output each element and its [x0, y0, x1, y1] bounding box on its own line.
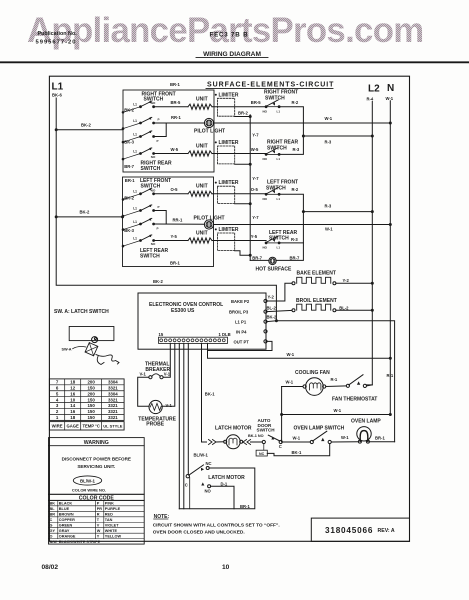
svg-text:150: 150	[87, 409, 95, 414]
svg-text:L1: L1	[277, 157, 281, 161]
svg-text:L1: L1	[133, 236, 137, 240]
wire OUT PT loop	[208, 341, 273, 350]
svg-text:C: C	[185, 482, 188, 487]
wire unit to limiter	[212, 240, 266, 242]
thermal limiter RR	[218, 146, 235, 164]
switch S-RR name	[141, 160, 173, 172]
svg-text:1: 1	[56, 415, 59, 420]
svg-text:NO: NO	[151, 188, 156, 192]
wire latch NO to box	[211, 486, 234, 508]
switch S-LR contact (pilot)	[123, 224, 141, 230]
svg-text:C: C	[50, 518, 53, 522]
logo AppliancePartsPros.com	[27, 11, 424, 50]
svg-text:R-3: R-3	[325, 204, 332, 209]
sensor temperature probe RT1	[138, 400, 176, 427]
svg-text:3304: 3304	[108, 380, 118, 385]
svg-text:R-3: R-3	[325, 139, 332, 144]
wire BK-1 NC to lamp switch	[267, 444, 329, 456]
wire N bus vertical W-1	[389, 101, 391, 415]
svg-text:UNIT: UNIT	[196, 184, 208, 190]
svg-text:BLACK/WHITE STRIPE: BLACK/WHITE STRIPE	[59, 540, 101, 544]
pin BROIL P3	[229, 309, 267, 314]
thermostat fan thermostat S5	[332, 375, 377, 403]
model number text	[210, 32, 249, 39]
svg-text:V-1: V-1	[164, 371, 171, 376]
svg-text:GREEN: GREEN	[59, 524, 73, 528]
svg-text:BK-2: BK-2	[153, 279, 163, 284]
svg-text:08/02: 08/02	[42, 564, 59, 571]
svg-text:NC: NC	[206, 461, 212, 466]
svg-text:NO: NO	[263, 246, 268, 250]
svg-text:NO: NO	[151, 101, 156, 105]
wire limiter tap Y-5	[235, 251, 251, 256]
wire BK-1 to latch motor	[202, 343, 216, 442]
svg-text:Y-5: Y-5	[251, 234, 258, 239]
svg-text:3321: 3321	[108, 409, 118, 414]
svg-text:Y-7: Y-7	[252, 176, 259, 181]
wire BK-2 to right front switch	[56, 123, 123, 130]
wire broil to L2 BL-2	[336, 306, 372, 311]
node N	[386, 83, 395, 101]
svg-text:DISCONNECT POWER BEFORE: DISCONNECT POWER BEFORE	[62, 456, 131, 461]
svg-text:GY: GY	[50, 529, 56, 533]
svg-text:UNIT: UNIT	[196, 230, 208, 236]
svg-text:200: 200	[87, 380, 95, 385]
wire limiter tap W-5	[235, 163, 251, 165]
node junction L1/BK-2	[55, 128, 58, 131]
svg-text:R: R	[97, 513, 100, 517]
wire L1 P1 BK-2 to lamp	[267, 321, 395, 442]
svg-text:BAKE P2: BAKE P2	[231, 299, 250, 304]
lamp pilot light right	[194, 118, 225, 134]
wire door sw C up to W-1	[281, 440, 283, 442]
thermal limiter RF	[218, 98, 235, 116]
svg-text:18: 18	[70, 415, 75, 420]
svg-text:W-1: W-1	[287, 352, 295, 357]
svg-text:Y-7: Y-7	[252, 215, 259, 220]
resistor UNIT RR	[188, 151, 212, 156]
svg-text:R-2: R-2	[292, 100, 299, 105]
node L1 junction dot	[275, 319, 278, 322]
svg-text:PILOT LIGHT: PILOT LIGHT	[194, 128, 225, 134]
svg-text:318045066: 318045066	[325, 526, 373, 535]
node bake/L2 junction	[371, 282, 374, 285]
svg-text:150: 150	[87, 385, 95, 390]
svg-text:SWITCH: SWITCH	[265, 96, 285, 102]
svg-text:3321: 3321	[108, 403, 118, 408]
svg-text:LATCH MOTOR: LATCH MOTOR	[208, 475, 245, 481]
wire fan drop to W-1 bus	[281, 387, 283, 443]
svg-text:R-4: R-4	[367, 96, 374, 101]
switch box left front/rear	[123, 177, 214, 267]
wire BR-5 unit feed	[154, 106, 188, 108]
svg-text:L1: L1	[133, 132, 137, 136]
svg-text:SERVICING UNIT.: SERVICING UNIT.	[77, 464, 115, 469]
svg-text:SWITCH: SWITCH	[257, 428, 276, 433]
svg-text:L1: L1	[133, 206, 137, 210]
svg-text:12: 12	[70, 385, 75, 390]
node pilot2/N junction	[389, 223, 392, 226]
svg-text:UL STYLE: UL STYLE	[103, 424, 123, 429]
svg-text:L1: L1	[133, 149, 137, 153]
svg-text:PROBE: PROBE	[146, 422, 164, 428]
switch S-LR contact (unit)	[123, 241, 141, 247]
svg-text:BROWN: BROWN	[59, 513, 74, 517]
svg-text:TEMP °C: TEMP °C	[82, 424, 99, 429]
svg-text:P: P	[158, 118, 160, 122]
svg-text:LIMITER: LIMITER	[219, 227, 239, 233]
svg-text:N: N	[387, 83, 394, 94]
svg-text:SW-A: SW-A	[62, 347, 72, 351]
svg-text:WIRE: WIRE	[52, 424, 63, 429]
svg-text:BR-1: BR-1	[240, 504, 250, 509]
svg-text:UNIT: UNIT	[196, 97, 208, 103]
node R-3/L2 junction	[371, 135, 374, 138]
svg-text:L1: L1	[277, 246, 281, 250]
motor cooling fan M1	[295, 370, 330, 395]
svg-text:R-1: R-1	[331, 377, 338, 382]
svg-text:WIRING DIAGRAM: WIRING DIAGRAM	[203, 51, 261, 58]
svg-text:Publication No.: Publication No.	[38, 31, 78, 37]
svg-text:L1: L1	[133, 220, 137, 224]
svg-text:BK-1: BK-1	[205, 392, 215, 397]
svg-text:Y-5: Y-5	[171, 234, 178, 239]
heater bake element	[292, 270, 336, 284]
wire limiter tap O-5	[235, 203, 251, 205]
wire V-1 to temp probe	[162, 343, 174, 406]
svg-text:P: P	[158, 205, 160, 209]
part number box	[311, 518, 409, 541]
wire W-5 unit feed	[154, 153, 188, 155]
svg-text:BR-7: BR-7	[252, 255, 262, 260]
svg-text:L1: L1	[133, 103, 137, 107]
svg-text:UNIT: UNIT	[196, 143, 208, 149]
svg-text:WHITE: WHITE	[105, 529, 118, 533]
node junction L1 lower	[55, 215, 58, 218]
svg-text:FEC3 7B B: FEC3 7B B	[210, 32, 249, 39]
svg-text:V-1: V-1	[166, 403, 173, 408]
svg-text:6: 6	[56, 385, 59, 390]
svg-text:BK-2: BK-2	[81, 123, 91, 128]
motor latch motor M2	[215, 425, 252, 448]
wire unit to limiter	[212, 106, 266, 108]
svg-text:W-1: W-1	[286, 380, 294, 385]
svg-text:W-1: W-1	[386, 96, 394, 101]
svg-text:10: 10	[70, 397, 75, 402]
svg-text:LATCH MOTOR: LATCH MOTOR	[215, 425, 252, 431]
svg-text:1 DLB: 1 DLB	[219, 332, 231, 337]
svg-text:3321: 3321	[108, 385, 118, 390]
wire L2 bus vertical R-4	[366, 102, 372, 385]
svg-text:150: 150	[87, 397, 95, 402]
svg-text:2: 2	[56, 409, 59, 414]
wire BL to latch area b	[183, 343, 185, 508]
switch S-RR contact (unit)	[123, 154, 141, 160]
pin L1 P1	[235, 319, 267, 324]
svg-text:BL: BL	[50, 507, 56, 511]
switch box right front/rear	[123, 90, 214, 172]
node Y-7 junctions	[249, 115, 252, 118]
svg-text:W-5: W-5	[251, 147, 259, 152]
wire BL/W-1 to latch switch pivot	[187, 343, 189, 474]
svg-text:LIMITER: LIMITER	[219, 92, 239, 98]
svg-text:L1: L1	[133, 190, 137, 194]
wire door C to lamp switch	[282, 436, 310, 443]
switch latch switch SW-A contacts	[185, 461, 212, 487]
node R col junction b	[302, 210, 305, 213]
svg-text:COOLING FAN: COOLING FAN	[295, 370, 330, 376]
svg-text:L1: L1	[277, 197, 281, 201]
wire limiter tap BR-5	[235, 116, 251, 118]
warning box	[49, 438, 145, 495]
svg-text:Y-7: Y-7	[252, 133, 259, 138]
svg-text:SWITCH: SWITCH	[140, 254, 160, 260]
main border frame	[49, 76, 409, 541]
svg-text:NO: NO	[263, 109, 268, 113]
svg-text:CIRCUIT SHOWN WITH ALL CONTROL: CIRCUIT SHOWN WITH ALL CONTROLS SET TO “…	[153, 523, 280, 529]
svg-text:C: C	[279, 444, 282, 449]
svg-text:OUT PT: OUT PT	[234, 339, 250, 344]
switch S-LR right	[263, 230, 299, 250]
svg-text:L1: L1	[52, 82, 64, 93]
svg-text:AppliancePartsPros.com: AppliancePartsPros.com	[27, 11, 424, 50]
svg-text:R-3: R-3	[291, 237, 298, 242]
svg-text:W-1: W-1	[325, 227, 333, 232]
svg-text:B/W: B/W	[50, 540, 58, 544]
svg-text:BK-2: BK-2	[267, 314, 277, 319]
node broil/L2 junction	[371, 309, 374, 312]
svg-text:BR-1: BR-1	[170, 260, 180, 265]
wire W-1 to fan	[282, 380, 303, 387]
svg-text:BR-1: BR-1	[170, 82, 180, 87]
title SURFACE-ELEMENTS-CIRCUIT	[206, 82, 334, 89]
svg-text:L1: L1	[277, 109, 281, 113]
wire Y-7 limiter collector vertical	[249, 115, 251, 261]
wire hot surface BR-7	[250, 259, 269, 261]
publication number text	[36, 31, 78, 45]
WIRING DIAGRAM heading	[196, 51, 268, 58]
node W-1 junction left	[280, 413, 283, 416]
svg-text:PR: PR	[97, 507, 103, 511]
wire LF right to R column	[281, 194, 304, 243]
switch S-RR right	[263, 139, 300, 161]
lamp pilot light left	[194, 216, 225, 229]
svg-text:VIOLET: VIOLET	[105, 524, 119, 528]
switch S-RR contact (pilot)	[123, 137, 141, 143]
pin OUT PT	[234, 339, 268, 344]
thermal limiter LF	[218, 186, 235, 203]
note text	[153, 514, 280, 536]
wire lamp switch to lamp	[331, 435, 358, 442]
wire V-1 to thermal breaker	[163, 343, 170, 377]
svg-text:10: 10	[222, 564, 230, 571]
svg-text:BL/W-1: BL/W-1	[80, 479, 96, 484]
wire pilot2 to contacts	[154, 223, 205, 225]
svg-text:BR-1: BR-1	[375, 436, 385, 441]
wire R-3 to L2	[303, 136, 372, 144]
wire fan to thermostat R-1	[326, 377, 347, 386]
svg-text:SURFACE-ELEMENTS-CIRCUIT: SURFACE-ELEMENTS-CIRCUIT	[207, 82, 334, 89]
switch S-LF right	[263, 180, 299, 201]
lamp hot surface indicator	[269, 257, 276, 264]
svg-text:GRAY: GRAY	[59, 529, 70, 533]
switch S-LF contact (unit)	[123, 194, 141, 200]
switch S-RF contact (unit)	[123, 107, 141, 113]
resistor UNIT LF	[188, 191, 212, 196]
thermal limiter LR	[218, 233, 235, 251]
svg-text:BR: BR	[50, 513, 56, 517]
svg-text:BK-2: BK-2	[124, 107, 134, 112]
svg-text:3304: 3304	[108, 391, 118, 396]
svg-text:4: 4	[56, 397, 59, 402]
pin IN P4	[236, 329, 267, 334]
svg-text:BR-7: BR-7	[290, 255, 300, 260]
svg-text:V: V	[97, 524, 100, 528]
svg-text:BK-2: BK-2	[80, 210, 90, 215]
node pilot1/N junction	[389, 122, 392, 125]
svg-text:PINK: PINK	[105, 502, 114, 506]
svg-text:REV: A: REV: A	[378, 528, 395, 534]
switch oven lamp switch	[294, 425, 345, 443]
svg-text:IN P4: IN P4	[236, 329, 247, 334]
svg-text:V-1: V-1	[140, 371, 147, 376]
svg-text:W-1: W-1	[341, 435, 349, 440]
svg-text:RED: RED	[105, 513, 113, 517]
svg-text:COLOR WIRE NO.: COLOR WIRE NO.	[72, 488, 106, 493]
node L1	[52, 82, 64, 98]
svg-text:SWITCH: SWITCH	[141, 166, 161, 172]
wire unit to limiter	[212, 193, 266, 195]
svg-text:W: W	[97, 529, 101, 533]
svg-text:BR-2: BR-2	[238, 111, 248, 116]
svg-text:COPPER: COPPER	[59, 518, 75, 522]
svg-text:5: 5	[56, 391, 59, 396]
wire O-5 unit feed	[154, 193, 188, 195]
svg-text:BROIL ELEMENT: BROIL ELEMENT	[296, 298, 337, 304]
svg-text:L2: L2	[368, 84, 380, 95]
svg-text:BL-2: BL-2	[339, 306, 349, 311]
svg-text:BR-5: BR-5	[171, 100, 181, 105]
svg-text:NO: NO	[263, 197, 268, 201]
svg-text:WARNING: WARNING	[84, 440, 109, 446]
svg-text:BR-7: BR-7	[124, 164, 134, 169]
svg-text:P: P	[157, 139, 159, 143]
connector chevrons right	[243, 440, 251, 445]
svg-text:16: 16	[70, 391, 75, 396]
svg-text:R-2: R-2	[292, 187, 299, 192]
svg-text:16: 16	[70, 409, 75, 414]
svg-text:HOT SURFACE: HOT SURFACE	[256, 267, 293, 273]
svg-text:BK-1 NO: BK-1 NO	[248, 434, 264, 438]
connector strip P5	[159, 337, 228, 343]
wire broil feed from EOC	[267, 305, 293, 311]
svg-text:5995677-20: 5995677-20	[36, 39, 77, 45]
svg-text:NC: NC	[259, 452, 265, 456]
table color code	[49, 494, 145, 544]
wire W-1 horizontal to N	[282, 408, 391, 414]
svg-text:FAN THERMOSTAT: FAN THERMOSTAT	[332, 397, 377, 403]
svg-text:T: T	[97, 518, 100, 522]
pin BAKE P2	[231, 299, 267, 304]
svg-text:BK-6: BK-6	[52, 93, 62, 98]
svg-text:Y-2: Y-2	[343, 278, 350, 283]
svg-text:OVEN DOOR CLOSED AND UNLOCKED.: OVEN DOOR CLOSED AND UNLOCKED.	[153, 530, 245, 536]
resistor UNIT LR	[188, 238, 212, 243]
svg-text:O-5: O-5	[171, 187, 179, 192]
switch S-LF name	[140, 178, 171, 190]
svg-text:BL-2: BL-2	[267, 305, 277, 310]
svg-text:NO: NO	[263, 157, 268, 161]
svg-text:BK: BK	[50, 502, 56, 506]
svg-text:NO: NO	[205, 488, 212, 493]
wire pilot1 jog from RR pilot	[154, 123, 167, 137]
svg-text:D-1: D-1	[221, 481, 228, 486]
wire pilot2 jog from LF pilot	[154, 211, 167, 225]
svg-text:BR-1: BR-1	[125, 178, 135, 183]
svg-text:TAN: TAN	[105, 518, 113, 522]
svg-text:3: 3	[56, 403, 59, 408]
wire pilot2 to N W-1	[214, 225, 391, 232]
svg-text:R-3: R-3	[293, 147, 300, 152]
svg-text:O: O	[50, 534, 53, 538]
wire W-1 neutral from EOC	[208, 343, 391, 358]
node W-1/N junction	[389, 357, 392, 360]
svg-text:W-1: W-1	[293, 436, 301, 441]
wire BL to latch area a	[178, 343, 180, 508]
svg-text:SWITCH: SWITCH	[269, 235, 289, 241]
svg-text:ES300 US: ES300 US	[171, 308, 195, 314]
node R-3 lower/L2 junction	[371, 210, 374, 213]
svg-text:BR-5: BR-5	[251, 100, 261, 105]
svg-text:G: G	[50, 524, 53, 528]
wire breaker left to probe left	[138, 377, 149, 406]
svg-text:18: 18	[70, 380, 75, 385]
svg-text:NO: NO	[151, 155, 156, 159]
svg-text:BK-1: BK-1	[292, 450, 302, 455]
svg-text:GAGE: GAGE	[67, 424, 80, 429]
node L2	[367, 84, 381, 102]
svg-text:SW. A: LATCH SWITCH: SW. A: LATCH SWITCH	[54, 309, 109, 315]
drawing latch switch assembly	[54, 309, 119, 364]
svg-text:W-5: W-5	[171, 147, 179, 152]
switch S-LR name	[140, 248, 168, 259]
svg-text:YELLOW: YELLOW	[105, 534, 122, 538]
oven control U1 ELECTRONIC OVEN CONTROL	[138, 293, 266, 349]
svg-text:150: 150	[87, 403, 95, 408]
svg-text:14: 14	[70, 403, 75, 408]
svg-text:P: P	[157, 226, 159, 230]
wire thermostat to L2	[367, 373, 394, 386]
svg-text:O-5: O-5	[251, 187, 259, 192]
node W-1 junction right	[389, 413, 392, 416]
svg-text:L1 P1: L1 P1	[235, 319, 247, 324]
svg-text:PILOT LIGHT: PILOT LIGHT	[194, 216, 225, 222]
wire pilot1 to contacts	[154, 122, 205, 124]
table wire gauge	[49, 379, 124, 430]
svg-text:OVEN LAMP: OVEN LAMP	[351, 419, 381, 425]
svg-text:LIMITER: LIMITER	[219, 180, 239, 186]
wire R-3 lower to L2	[303, 204, 372, 212]
svg-text:RR-1: RR-1	[171, 115, 181, 120]
svg-text:7: 7	[56, 380, 59, 385]
svg-text:3321: 3321	[108, 415, 118, 420]
svg-text:BL/W-1: BL/W-1	[194, 453, 209, 458]
svg-text:15: 15	[159, 332, 164, 337]
wire motor to door switch NO	[251, 441, 263, 443]
svg-text:OVEN LAMP SWITCH: OVEN LAMP SWITCH	[294, 425, 345, 431]
svg-text:RIGHT REAR: RIGHT REAR	[267, 139, 299, 145]
node R col junction a	[302, 135, 305, 138]
